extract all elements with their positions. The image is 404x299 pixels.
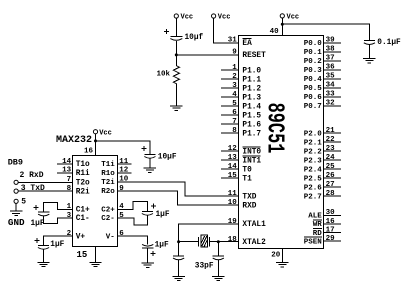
svg-text:C1+: C1+ (76, 207, 90, 215)
capacitor 1uF (C1) (38, 211, 49, 213)
svg-text:11: 11 (119, 158, 129, 166)
svg-text:R2i: R2i (76, 188, 90, 196)
svg-text:10: 10 (228, 199, 238, 207)
svg-text:12: 12 (119, 167, 129, 175)
svg-text:P2.3: P2.3 (304, 157, 323, 165)
ground (V+ capacitor) (37, 261, 49, 263)
wire reset node to RESET pin 9 (176, 54, 238, 56)
pin 35 P0.4 (89C51 right) (304, 73, 341, 84)
svg-text:31: 31 (228, 37, 238, 45)
pin 36 P0.3 (89C51 right) (304, 64, 341, 75)
ground (33pF right) (212, 275, 224, 277)
capacitor 1uF (V+) (38, 244, 49, 246)
svg-text:18: 18 (228, 236, 238, 244)
wire V- capacitor to ground (147, 248, 149, 263)
pin 21 P2.0 (89C51 right) (304, 127, 341, 138)
svg-text:5: 5 (21, 197, 26, 206)
wire capacitor to reset node (175, 41, 177, 55)
svg-text:28: 28 (326, 190, 336, 198)
svg-text:20: 20 (271, 252, 281, 260)
svg-text:P0.5: P0.5 (304, 85, 323, 93)
svg-text:1μF: 1μF (155, 242, 169, 250)
svg-text:P2.6: P2.6 (304, 184, 323, 192)
node reset junction (175, 53, 178, 56)
svg-text:0.1μF: 0.1μF (377, 39, 401, 47)
svg-text:25: 25 (326, 163, 336, 171)
pin 2 V+ (MAX232 left) (67, 230, 86, 241)
svg-text:14: 14 (228, 163, 238, 171)
pin 5 P1.4 (89C51 left) (221, 100, 261, 111)
capacitor 1uF (C2) (142, 210, 153, 212)
svg-text:P1.7: P1.7 (242, 130, 261, 138)
svg-text:XTAL1: XTAL1 (242, 221, 266, 229)
svg-text:DB9: DB9 (8, 157, 23, 167)
pin 6 P1.5 (89C51 left) (221, 109, 261, 120)
DB9 pin 5 terminal (14, 199, 18, 203)
wire right node to 33pF capacitor (217, 242, 219, 256)
ground (V- capacitor) (142, 262, 154, 264)
svg-text:P1.1: P1.1 (242, 76, 261, 84)
pin 37 P0.2 (89C51 right) (304, 55, 341, 66)
wire C2- pin5 to capacitor (117, 216, 147, 226)
ground (bypass capacitor) (363, 58, 375, 60)
wire Vcc to EA pin 31 (214, 18, 239, 43)
svg-text:6: 6 (119, 230, 124, 238)
svg-text:1: 1 (232, 64, 237, 72)
ground (33pF left) (172, 275, 184, 277)
capacitor 1uF (V-) (142, 244, 153, 246)
svg-text:3 TxD: 3 TxD (21, 184, 45, 193)
svg-text:8: 8 (67, 185, 72, 193)
svg-text:29: 29 (326, 235, 336, 243)
pin 13 INT1 (89C51 left) (221, 154, 261, 165)
pin 33 P0.6 (89C51 right) (304, 91, 341, 102)
svg-text:T0: T0 (242, 166, 252, 174)
node pin 40 junction (281, 23, 284, 26)
pin 38 P0.1 (89C51 right) (304, 46, 341, 57)
pin 16 WR (89C51 right) (313, 218, 341, 229)
pin 18 XTAL2 (89C51 left) (228, 236, 266, 247)
pin 12 R1o (MAX232 right) (101, 167, 131, 178)
svg-text:T1: T1 (242, 175, 252, 183)
svg-text:PSEN: PSEN (304, 238, 322, 246)
svg-text:Vcc: Vcc (287, 14, 300, 22)
svg-text:P1.3: P1.3 (242, 94, 261, 102)
resistor 10k (173, 55, 179, 106)
svg-text:15: 15 (228, 172, 238, 180)
svg-text:3: 3 (67, 212, 72, 220)
pin 1 P1.0 (89C51 left) (221, 64, 261, 75)
svg-text:2: 2 (232, 73, 237, 81)
wire 33pF right to ground (217, 260, 219, 277)
pin 6 V- (MAX232 right) (106, 230, 124, 241)
wire Vcc to reset capacitor (175, 18, 177, 36)
svg-text:7: 7 (232, 118, 237, 126)
power Vcc symbol (MAX232) (93, 130, 97, 134)
svg-text:27: 27 (326, 181, 335, 189)
svg-text:P2.7: P2.7 (304, 193, 322, 201)
wire left node to 33pF capacitor (178, 242, 180, 256)
pin 8 P1.7 (89C51 left) (221, 127, 261, 138)
svg-text:P0.0: P0.0 (304, 40, 323, 48)
svg-text:16: 16 (84, 147, 94, 155)
DB9 pin 2 terminal (14, 180, 18, 184)
svg-text:T1o: T1o (76, 161, 90, 169)
pin 14 T1o (MAX232 left) (57, 158, 90, 169)
power Vcc symbol (pin 40) (280, 14, 284, 18)
ground (DB9 pin 5) (10, 210, 22, 212)
svg-text:P0.6: P0.6 (304, 94, 323, 102)
svg-text:T2i: T2i (101, 179, 115, 187)
svg-text:R1o: R1o (101, 170, 115, 178)
svg-text:35: 35 (326, 73, 336, 81)
capacitor 10uF (MAX232 supply) (144, 153, 155, 155)
pin 5 C2- (MAX232 right) (101, 212, 124, 223)
svg-text:10μF: 10μF (158, 154, 177, 162)
pin 23 P2.2 (89C51 right) (304, 145, 341, 156)
svg-text:26: 26 (326, 172, 336, 180)
wire V+ pin2 to capacitor (44, 236, 73, 245)
wire DB9 pin3 to R2i (18, 190, 72, 192)
pin 3 C1- (MAX232 left) (67, 212, 90, 223)
power Vcc symbol (reset) (174, 14, 178, 18)
svg-text:40: 40 (270, 28, 280, 36)
svg-text:10μf: 10μf (185, 34, 204, 42)
svg-text:37: 37 (326, 55, 335, 63)
svg-text:RESET: RESET (242, 52, 266, 60)
svg-text:1μF: 1μF (156, 211, 170, 219)
pin 11 TXD (89C51 left) (228, 190, 257, 201)
svg-text:89C51: 89C51 (261, 103, 288, 154)
crystal Y1 (199, 235, 210, 247)
ground (reset resistor) (170, 105, 182, 107)
pin 14 T0 (89C51 left) (221, 163, 252, 174)
svg-text:39: 39 (326, 37, 336, 45)
ground (10uF capacitor) (144, 167, 156, 169)
pin 19 XTAL1 (89C51 left) (228, 218, 266, 229)
svg-text:3: 3 (232, 82, 237, 90)
pin 7 P1.6 (89C51 left) (221, 118, 261, 129)
svg-text:MAX232: MAX232 (56, 135, 92, 146)
svg-text:P2.4: P2.4 (304, 166, 323, 174)
svg-text:RXD: RXD (242, 202, 256, 210)
svg-text:V-: V- (106, 233, 115, 241)
wire bypass capacitor to ground (368, 45, 370, 59)
svg-text:10k: 10k (156, 71, 170, 79)
svg-text:P0.3: P0.3 (304, 67, 323, 75)
pin 27 P2.6 (89C51 right) (304, 181, 341, 192)
pin 7 T2o (MAX232 left) (67, 176, 90, 187)
capacitor 33pF right (213, 255, 224, 257)
capacitor 33pF left (173, 255, 184, 257)
pin 10 T2i (MAX232 right) (101, 176, 128, 187)
pin 34 P0.5 (89C51 right) (304, 82, 341, 93)
capacitor 0.1uF bypass (364, 40, 375, 42)
svg-text:9: 9 (119, 185, 124, 193)
svg-text:33pF: 33pF (195, 262, 214, 270)
svg-text:33: 33 (326, 91, 336, 99)
wire V+ capacitor to ground (43, 249, 45, 262)
svg-text:13: 13 (62, 167, 72, 175)
svg-text:P0.4: P0.4 (304, 76, 323, 84)
svg-text:2: 2 (67, 230, 72, 238)
pin 32 P0.7 (89C51 right) (304, 100, 341, 111)
svg-text:10: 10 (119, 176, 129, 184)
svg-text:6: 6 (232, 109, 237, 117)
pin 31 EA (89C51 left) (228, 37, 252, 48)
wire XTAL1 to crystal (179, 224, 239, 242)
svg-text:C2+: C2+ (101, 207, 115, 215)
pin 17 RD (89C51 right) (313, 226, 341, 237)
svg-text:R2o: R2o (101, 188, 115, 196)
svg-text:16: 16 (326, 218, 336, 226)
svg-text:V+: V+ (76, 233, 86, 241)
wire crystal left node (179, 241, 199, 243)
svg-text:1μF: 1μF (50, 241, 64, 249)
wire V- pin6 to capacitor (117, 236, 147, 244)
svg-text:P0.2: P0.2 (304, 58, 323, 66)
svg-text:9: 9 (232, 49, 237, 57)
svg-text:Vcc: Vcc (99, 129, 112, 137)
svg-text:INT0: INT0 (242, 148, 261, 156)
svg-text:TXD: TXD (242, 193, 256, 201)
svg-text:P1.6: P1.6 (242, 121, 261, 129)
node MAX232 Vcc junction (94, 139, 97, 142)
wire C2+ pin4 to capacitor (117, 202, 147, 212)
wire Vcc down to pin 40 (281, 18, 283, 36)
svg-text:P0.7: P0.7 (304, 103, 322, 111)
svg-text:Vcc: Vcc (181, 14, 194, 22)
svg-text:T2o: T2o (76, 180, 90, 188)
svg-text:38: 38 (326, 46, 336, 54)
pin 28 P2.7 (89C51 right) (304, 190, 341, 201)
wire Vcc to pin 16 (95, 134, 97, 156)
svg-text:13: 13 (228, 154, 238, 162)
svg-text:8: 8 (232, 127, 237, 135)
svg-text:5: 5 (119, 212, 124, 220)
svg-text:32: 32 (326, 100, 336, 108)
pin 4 P1.3 (89C51 left) (221, 91, 261, 102)
DB9 pin 3 terminal (14, 189, 18, 193)
svg-text:P2.5: P2.5 (304, 175, 323, 183)
svg-text:P1.2: P1.2 (242, 85, 261, 93)
wire DB9 pin5 to ground (15, 203, 17, 211)
svg-text:15: 15 (77, 250, 88, 260)
svg-text:P2.0: P2.0 (304, 130, 323, 138)
svg-text:12: 12 (228, 145, 238, 153)
svg-text:22: 22 (326, 136, 336, 144)
svg-text:5: 5 (232, 100, 237, 108)
svg-text:C1-: C1- (76, 215, 90, 223)
pin 11 T1i (MAX232 right) (101, 158, 131, 169)
pin 3 P1.2 (89C51 left) (221, 82, 261, 93)
IC U2 MAX232 body (73, 156, 118, 247)
pin 8 R2i (MAX232 left) (67, 185, 90, 196)
pin 1 C1+ (MAX232 left) (67, 203, 90, 214)
svg-text:19: 19 (228, 218, 238, 226)
wire C1- pin3 to capacitor (44, 216, 73, 223)
svg-text:T1i: T1i (101, 161, 115, 169)
pin 10 RXD (89C51 left) (228, 199, 257, 210)
svg-text:21: 21 (326, 127, 336, 135)
IC U1 89C51 body (238, 36, 323, 249)
svg-text:P1.4: P1.4 (242, 103, 261, 111)
power Vcc symbol (EA) (212, 14, 216, 18)
wire 10uF capacitor to ground (149, 158, 151, 168)
pin 13 R1i (MAX232 left) (57, 167, 90, 178)
svg-text:24: 24 (326, 154, 336, 162)
pin 9 RESET (89C51 left) (232, 49, 266, 60)
svg-text:14: 14 (62, 158, 72, 166)
pin 12 INT0 (89C51 left) (221, 145, 261, 156)
svg-text:P1.0: P1.0 (242, 67, 261, 75)
wire T2i to TXD (117, 182, 238, 196)
svg-text:P2.1: P2.1 (304, 139, 323, 147)
wire Vcc node to 10uF capacitor (96, 141, 150, 154)
node crystal left (177, 240, 180, 243)
svg-text:C2-: C2- (101, 215, 115, 223)
svg-text:GND: GND (8, 217, 25, 228)
svg-text:P1.5: P1.5 (242, 112, 261, 120)
pin 9 R2o (MAX232 right) (101, 185, 124, 196)
wire C1+ pin1 to capacitor (44, 203, 73, 213)
svg-text:7: 7 (67, 176, 72, 184)
pin 15 T1 (89C51 left) (221, 172, 252, 183)
pin 29 PSEN (89C51 right) (304, 235, 341, 246)
wire crystal to XTAL2 (210, 241, 219, 243)
svg-text:4: 4 (232, 91, 237, 99)
pin 22 P2.1 (89C51 right) (304, 136, 341, 147)
ground (pin 20) (276, 262, 288, 264)
svg-text:23: 23 (326, 145, 336, 153)
pin 2 P1.1 (89C51 left) (221, 73, 261, 84)
svg-text:36: 36 (326, 64, 336, 72)
pin 30 ALE (89C51 right) (308, 209, 341, 220)
svg-text:EA: EA (242, 40, 252, 48)
svg-text:INT1: INT1 (242, 157, 261, 165)
wire crystal right node to XTAL2 pin 18 (218, 241, 238, 243)
svg-text:4: 4 (119, 203, 124, 211)
wire DB9 pin2 to T2o (18, 181, 72, 183)
pin 4 C2+ (MAX232 right) (101, 203, 124, 214)
pin 25 P2.4 (89C51 right) (304, 163, 341, 174)
svg-text:17: 17 (326, 226, 335, 234)
svg-text:34: 34 (326, 82, 336, 90)
node crystal right (217, 240, 220, 243)
pin 24 P2.3 (89C51 right) (304, 154, 341, 165)
pin 15 GND (MAX232 bottom) (77, 246, 96, 262)
svg-text:11: 11 (228, 190, 238, 198)
wire node to bypass capacitor (282, 24, 369, 40)
svg-text:30: 30 (326, 209, 336, 217)
svg-text:XTAL2: XTAL2 (242, 239, 266, 247)
wire R2o to RXD (117, 191, 238, 205)
pin 39 P0.0 (89C51 right) (304, 37, 341, 48)
svg-text:1: 1 (67, 203, 72, 211)
ground (pin 15) (89, 261, 101, 263)
pin 20 GND (89C51 bottom) (271, 248, 282, 262)
svg-text:P0.1: P0.1 (304, 49, 323, 57)
svg-text:Vcc: Vcc (218, 14, 231, 22)
svg-text:P2.2: P2.2 (304, 148, 323, 156)
svg-text:R1i: R1i (76, 170, 90, 178)
pin 26 P2.5 (89C51 right) (304, 172, 341, 183)
svg-text:1μF: 1μF (31, 220, 45, 228)
capacitor 10uF (reset) (170, 35, 182, 37)
svg-text:2 RxD: 2 RxD (20, 171, 44, 180)
wire 33pF left to ground (178, 260, 180, 277)
